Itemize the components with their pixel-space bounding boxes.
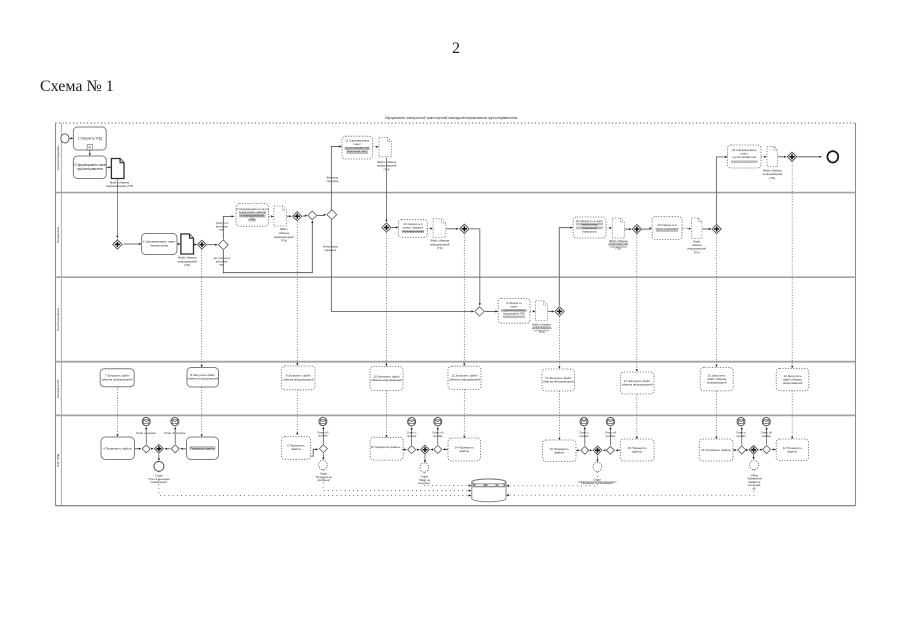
dotted wire task D down to lane5 task M2 (385, 391, 387, 436)
wire N1 to XC1 (576, 449, 578, 451)
data object D11 (dashed) (379, 137, 391, 157)
data object D14 (dashed) (433, 219, 446, 238)
message event ML2 (171, 417, 179, 425)
task C Загрузить файл (dashed) (281, 366, 315, 390)
start event (61, 134, 69, 143)
wire D20 to G10 (702, 228, 709, 230)
wire G30 to end event (798, 156, 821, 158)
wire PC down to error event EC (597, 456, 599, 461)
task 4 Сформировать пакет грузополучателя (dashed) (498, 298, 530, 323)
wire D4 to G12 (548, 310, 553, 312)
wire XL1 to PL (150, 448, 153, 450)
task 14 Сформировать в транспортном разделе (dashed) (398, 220, 427, 238)
message event MC2 (607, 417, 615, 425)
error event EM (dashed) (319, 460, 328, 469)
wire L2 to XL2 (182, 448, 187, 450)
lane line 3/4 (56, 361, 856, 363)
dotted wire ED to cylinder (508, 470, 754, 495)
wire task4 to D4 (530, 310, 534, 312)
svg-text:11 Проверить файлы: 11 Проверить файлы (371, 445, 401, 449)
data object D16 (dashed) (612, 218, 624, 238)
parallel gateway G8 (460, 224, 469, 233)
data object D5 (dashed) (274, 206, 287, 226)
wire task14 to D14 (427, 228, 431, 230)
dotted wire G8 down to lane4 task E (463, 235, 465, 364)
wire XC1 to PC (589, 449, 592, 451)
task P1 Исправить файлы (dashed) (699, 439, 733, 461)
exclusive gateway XD1 (738, 446, 746, 454)
dotted wire EM to cylinder (323, 470, 469, 491)
exclusive gateway G3 (218, 240, 228, 250)
error event EB (dashed) (420, 463, 429, 472)
wire G3 up to task 5 (223, 216, 232, 239)
dotted wire G4 down to lane4 task C (296, 222, 298, 364)
dotted wire G2 down to lane4 task B (201, 250, 203, 365)
exclusive gateway XC1 (581, 446, 589, 454)
svg-text:Файл обменаинформацией (ТН): Файл обменаинформацией (ТН) (106, 180, 133, 188)
message event MM (319, 417, 327, 425)
dotted wire task I down to lane5 task P2 (791, 391, 793, 437)
wire task16 to D16 (606, 227, 610, 229)
svg-text:Оператор ИС: Оператор ИС (56, 378, 60, 398)
svg-text:4 Проверить файлы: 4 Проверить файлы (103, 446, 133, 450)
wire task30 to D30 (761, 156, 765, 158)
task E Загрузить файл (dashed) (448, 366, 481, 389)
dotted wire task G down to lane5 task N2 (636, 394, 638, 437)
exclusive gateway G5 (308, 211, 317, 220)
task M2 Проверить файлы (dashed) (370, 437, 403, 460)
wire M2 to XB1 (402, 449, 405, 451)
wire G8 right down to lane3 gateway G11 (470, 229, 480, 304)
parallel gateway G1 (113, 240, 122, 249)
wire task20 to D20 (682, 228, 689, 230)
wire D1 down to gateway G1 (116, 179, 118, 237)
parallel gateway PL (155, 444, 164, 453)
parallel gateway G9 (632, 225, 641, 234)
wire PL down to error event EL (158, 454, 160, 459)
dotted wire task A down to lane5 task L1 (116, 387, 118, 435)
data object D4 (dashed) (536, 301, 548, 321)
exclusive gateway XL1 (142, 445, 150, 453)
wire G6 up to task 11 (331, 147, 340, 210)
wire P1 to XD1 (733, 449, 735, 451)
dotted wire G12 down to lane4 task F (558, 317, 560, 366)
svg-text:Перевозчик: Перевозчик (56, 226, 60, 243)
exclusive gateway XB1 (408, 446, 416, 454)
lane line 2/3 (56, 276, 856, 278)
wire XD2 up to MD2 (766, 429, 768, 445)
task D Загрузить файл (dashed) (370, 367, 403, 391)
dotted wire task B down to lane5 task L2 (201, 387, 203, 434)
task P2 Проверить файлы (dashed) (776, 439, 808, 461)
dotted wire G9 down to lane4 task G (636, 234, 638, 369)
pool bottom border (56, 505, 856, 507)
task I Загрузить файл (dashed) (776, 368, 809, 391)
dotted wire task H down to lane5 task P1 (715, 391, 717, 437)
wire XD1 to PD (746, 449, 748, 451)
svg-text:9 Загрузить файлобмена информа: 9 Загрузить файлобмена информацией (283, 374, 314, 382)
wire task2 to data object D1 (106, 166, 109, 168)
svg-text:Не выбранапередача: Не выбранапередача (323, 244, 339, 252)
wire task3 to D3 (177, 243, 179, 245)
svg-text:ГИС ЭПД: ГИС ЭПД (56, 454, 60, 467)
pool top dotted border (56, 122, 856, 124)
data object D1 (111, 159, 124, 179)
error event EC (dashed) (593, 462, 602, 471)
wire G9 to task 20 (642, 228, 650, 230)
task M1 Проверить файлы (dashed) (281, 437, 310, 460)
task 5 Сформировать в части перевозчика (dashed) (236, 204, 269, 227)
svg-text:31 Загрузитьфайл обменаинформа: 31 Загрузитьфайл обменаинформацией (707, 373, 727, 384)
exclusive gateway G6 (327, 210, 337, 220)
task G Загрузить файл (dashed) (620, 372, 654, 394)
wire XB1 up to MB1 (411, 429, 413, 445)
wire lane3 G12 up to task 16 (559, 228, 571, 306)
svg-text:13 Загрузить файлобмена информ: 13 Загрузить файлобмена информацией (543, 376, 574, 384)
exclusive gateway XC2 (606, 446, 614, 454)
svg-text:Грузоотправитель: Грузоотправитель (56, 145, 60, 170)
data object D30 (dashed) (767, 147, 778, 167)
label файл обмена информацией (609, 243, 628, 244)
wire M3 to XB2 (445, 448, 448, 450)
parallel gateway PB (421, 445, 430, 454)
task 2 Сформировать пакет грузоотправителя (73, 156, 106, 179)
svg-text:11 Загрузить файлобмена информ: 11 Загрузить файлобмена информацией (449, 374, 480, 382)
message event MB1 (408, 418, 416, 426)
wire D30 to gateway G30 (778, 156, 785, 158)
dotted wire EB to cylinder (424, 472, 469, 485)
dotted wire G30 down to lane4 task I (791, 162, 793, 366)
wire PB down to error event EB (424, 455, 426, 461)
dotted wire task C down to lane5 task M1 (296, 390, 298, 433)
dotted wire task E down to lane5 task M3 (463, 390, 465, 436)
svg-text:2: 2 (452, 40, 460, 57)
svg-text:Проверка файла: Проверка файла (190, 446, 215, 450)
wire D5 to G4 (287, 215, 290, 217)
message event MD2 (762, 417, 770, 425)
task L1 Проверить файлы (101, 437, 135, 460)
wire XB2 to PB (431, 448, 434, 450)
wire XB1 to PB (417, 449, 419, 451)
exclusive gateway XB2 (434, 445, 442, 453)
pool lane-label divider (60, 123, 62, 506)
task 1 Получить УПД (73, 127, 106, 150)
data object D20 (dashed) (691, 218, 702, 238)
message event MC1 (580, 417, 588, 425)
exclusive gateway XM (319, 445, 327, 453)
wire P2 to XD2 (773, 449, 776, 451)
svg-text:1 Получить УПД: 1 Получить УПД (78, 137, 103, 141)
message event MD1 (737, 417, 745, 425)
exclusive gateway XD2 (763, 446, 771, 454)
wire D16 to G9 (625, 228, 630, 230)
parallel gateway PC (593, 446, 602, 455)
wire G1 to task 3 (123, 243, 139, 245)
pool left border (55, 123, 57, 506)
svg-text:Оформление электронной транспо: Оформление электронной транспортной накл… (385, 116, 518, 120)
dotted wire G7 down to lane4 task D (385, 233, 387, 364)
svg-text:Ответ оприеме: Ответ оприеме (579, 431, 589, 438)
wire XC2 up to MC2 (609, 429, 611, 445)
dotted wire EC to cylinder (508, 472, 597, 486)
parallel gateway G30 (787, 152, 796, 161)
exclusive gateway XL2 (171, 445, 179, 453)
svg-text:12 Загрузитьфайл обменаинформа: 12 Загрузитьфайл обменаинформацией (783, 374, 803, 385)
svg-text:2 Сформировать пакетгрузоотпра: 2 Сформировать пакетгрузоотправителя (73, 163, 108, 171)
parallel gateway G4 (293, 212, 302, 221)
wire L1 to gateway XL1 (135, 448, 140, 450)
task M3 Проверить файлы (dashed) (448, 438, 481, 461)
label Сбой Проверка не пройдена (578, 481, 617, 482)
wire task11 to D11 (373, 146, 378, 148)
task N1 Проверить файлы (dashed) (543, 440, 577, 462)
end event (827, 151, 838, 162)
parallel gateway G7 (382, 223, 391, 232)
task L2 Проверить файлы (187, 437, 219, 460)
wire XM up to MM (322, 429, 324, 444)
wire task1 to task2 (89, 150, 91, 153)
wire G5 to G6 (317, 214, 324, 216)
parallel gateway G2 (197, 240, 206, 249)
svg-text:14 Сформ-ть втрансп. разделе(п: 14 Сформ-ть втрансп. разделе(переадресац… (402, 222, 424, 233)
task F Загрузить файл (dashed) (542, 369, 575, 391)
svg-text:10 Загрузить файлобмена информ: 10 Загрузить файлобмена информацией (371, 374, 402, 382)
parallel gateway G12 (555, 307, 564, 316)
dotted wire G10 down to lane4 task H (715, 234, 717, 365)
wire PD down to error event ED (753, 455, 755, 458)
lane line 1/2 (56, 192, 856, 194)
task A Загрузить файл (100, 369, 134, 387)
task 30 Сформировать пакет грузоотправителя (dashed) (728, 145, 762, 168)
svg-text:Схема № 1: Схема № 1 (40, 78, 114, 95)
svg-text:8 Загрузить файлобмена информа: 8 Загрузить файлобмена информацией (187, 373, 218, 381)
dotted wire EL to cylinder (159, 471, 469, 495)
wire XC1 up to MC1 (584, 429, 586, 445)
task H Загрузить файл (dashed) (700, 368, 733, 391)
wire XL2 to PL (166, 448, 170, 450)
wire start to task 1 (69, 137, 72, 139)
wire D14 to G8 (446, 228, 457, 230)
wire XB2 up to MB2 (437, 429, 439, 445)
wire task5 to D5 (269, 215, 272, 217)
error event EL (154, 461, 164, 471)
wire G3 down right up to G5 (223, 223, 312, 273)
svg-text:20 Сформ-ть вчасти получателя: 20 Сформ-ть вчасти получателя (656, 223, 679, 231)
svg-text:21 Исправить файлы: 21 Исправить файлы (701, 448, 731, 452)
svg-text:11 Сформироватьпакетгрузоотпра: 11 Сформироватьпакетгрузоотправителя(вне… (345, 139, 370, 153)
svg-text:Выбранапередача: Выбранапередача (327, 176, 339, 184)
task 3 Сформировать пакет перевозчика (142, 234, 178, 255)
svg-text:Ответ оприеме: Ответ оприеме (736, 431, 746, 438)
wire D3 to G2 (194, 244, 195, 246)
wire G4 to G5 (303, 215, 306, 217)
wire XL1 up to ML1 (145, 429, 147, 444)
message event ML1 (142, 417, 150, 425)
wire G11 to task 4 (485, 310, 496, 312)
label файл обмена информацией (ТН) (533, 326, 550, 327)
wire XL2 up to ML2 (174, 429, 176, 444)
svg-text:17 Загрузить файлобмена информ: 17 Загрузить файлобмена информацией (622, 379, 653, 387)
wire XC2 to PC (604, 449, 607, 451)
wire G10 up to task 30 (716, 157, 725, 224)
wire XM down to error event EM (322, 454, 324, 458)
wire G7 to task 14 (392, 227, 397, 229)
parallel gateway PD (749, 445, 758, 454)
wire XD1 up to MD1 (741, 429, 743, 445)
lane line 4/5 (56, 414, 856, 416)
task 20 Сформировать в части получателя (dashed) (652, 217, 682, 240)
svg-text:7 Загрузить файлобмена информа: 7 Загрузить файлобмена информацией (102, 374, 133, 382)
svg-text:Грузополучатель: Грузополучатель (56, 307, 60, 331)
task 16 Сформировать в части перевозчика (dashed) (573, 217, 606, 238)
data object D3 (181, 234, 194, 254)
error event ED (dashed) (750, 460, 759, 469)
task B Загрузить файл (187, 368, 219, 388)
pool right border (855, 123, 857, 506)
database cylinder (472, 479, 506, 502)
wire XD2 to PD (761, 449, 762, 451)
wire G2 to G3 (207, 244, 216, 246)
task N2 Проверить файлы (dashed) (620, 439, 654, 461)
wire D11 down to G7 (385, 157, 387, 220)
message event MB2 (434, 417, 442, 425)
wire G6 down to lane3 gateway G11 (331, 220, 472, 311)
dotted wire task F down to lane5 task N1 (558, 391, 560, 438)
wire M1 to XM (311, 449, 317, 456)
parallel gateway G10 (712, 224, 721, 233)
exclusive gateway G11 (475, 307, 484, 316)
wire N2 to XC2 (617, 449, 620, 451)
task 11 Сформировать пакет грузоотправителя (dashed) (342, 136, 373, 159)
